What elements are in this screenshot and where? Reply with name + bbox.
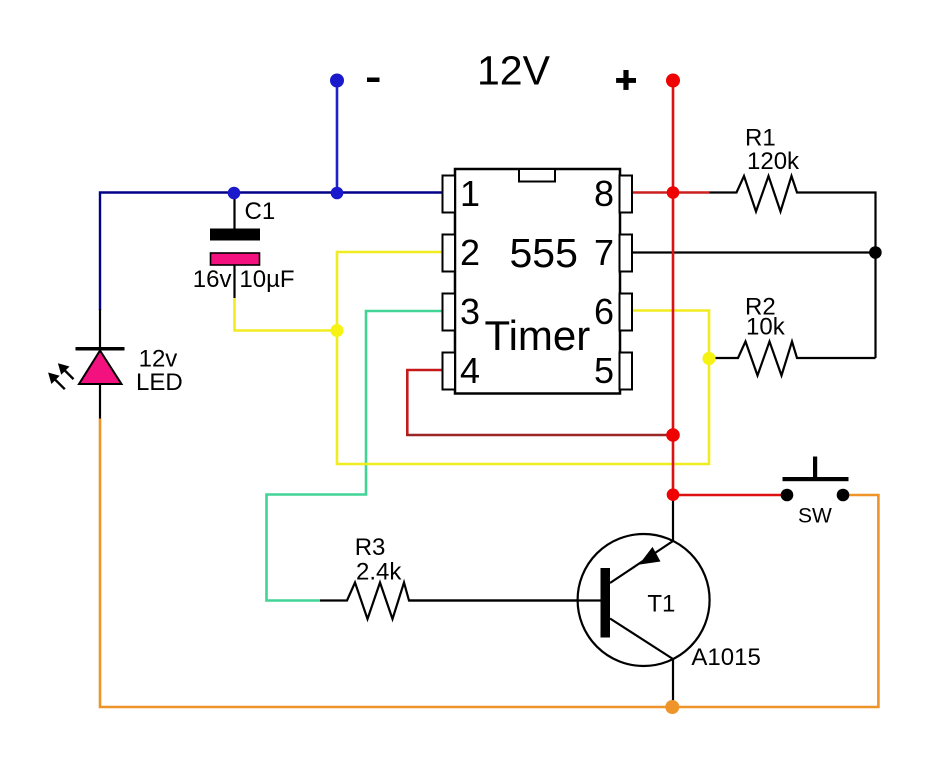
node orange junction bottom: [665, 700, 679, 714]
LED light arrow upper: [58, 363, 74, 379]
capacitor C1 top lead: [233, 194, 235, 229]
IC pin 3 box: [443, 294, 456, 331]
svg-text:LED: LED: [136, 369, 183, 396]
minus terminal sign: [367, 78, 380, 83]
svg-text:3: 3: [460, 291, 480, 332]
transistor T1 emitter arrowhead: [639, 547, 661, 565]
switch SW right contact dot: [837, 489, 850, 502]
svg-text:7: 7: [594, 232, 614, 273]
capacitor C1 bottom lead: [233, 265, 235, 298]
IC pin 2 box: [443, 235, 456, 272]
wire dark red pin4 reset lower: [406, 434, 673, 437]
wire yellow C1 leg: [235, 298, 339, 331]
plus terminal sign: [616, 70, 636, 90]
svg-text:4: 4: [460, 350, 480, 391]
svg-text:A1015: A1015: [691, 644, 760, 671]
svg-text:2.4k: 2.4k: [356, 559, 402, 586]
transistor T1 base bar: [601, 568, 611, 638]
svg-text:10µF: 10µF: [239, 266, 294, 293]
LED D1 triangle: [79, 351, 122, 385]
svg-text:8: 8: [594, 173, 614, 214]
wire black LED anode stem: [99, 309, 101, 348]
node blue junction C1: [228, 187, 241, 200]
wire blue minus terminal drop: [336, 84, 339, 193]
node red junction reset: [666, 428, 680, 442]
switch SW stem: [813, 457, 817, 478]
IC pin 7 box: [620, 235, 633, 272]
resistor R3 zigzag and leads: [320, 583, 601, 620]
LED D1 cathode bar: [76, 347, 125, 351]
LED light arrow lower: [48, 373, 65, 390]
wire yellow pin2 loop to pin6: [337, 252, 709, 464]
node red junction switch: [667, 488, 680, 501]
wire black switch to transistor top: [672, 495, 674, 541]
svg-text:10k: 10k: [746, 313, 786, 340]
resistor R1 zigzag and leads: [710, 176, 876, 358]
node blue junction drop: [331, 187, 344, 200]
wire navy minus rail to pin1: [100, 193, 443, 311]
transistor T1 emitter line: [610, 541, 673, 583]
node yellow junction C1 bottom: [331, 324, 344, 337]
wire red pin4 reset upper: [407, 370, 442, 435]
wire red pin8 lead: [632, 191, 710, 194]
svg-text:5: 5: [594, 350, 614, 391]
svg-text:120k: 120k: [747, 148, 800, 175]
wire black LED cathode stem: [99, 384, 101, 419]
svg-text:6: 6: [594, 291, 614, 332]
node red plus terminal: [666, 74, 680, 88]
IC pin 6 box: [620, 294, 633, 331]
IC pin 8 box: [620, 176, 633, 213]
transistor T1 collector line: [610, 619, 673, 660]
svg-text:R3: R3: [355, 534, 386, 561]
switch SW bar: [783, 477, 849, 481]
wire red to switch: [673, 494, 787, 497]
IC U1 555 body: [455, 169, 620, 394]
node blue minus terminal: [330, 74, 344, 88]
node yellow junction R2: [702, 352, 715, 365]
svg-text:SW: SW: [798, 505, 832, 528]
capacitor C1 top plate: [210, 229, 260, 241]
svg-text:2: 2: [460, 232, 480, 273]
switch SW left contact dot: [781, 489, 794, 502]
capacitor C1 bottom plate: [211, 253, 260, 265]
resistor R2 zigzag and leads: [716, 342, 876, 376]
svg-text:12V: 12V: [477, 48, 551, 94]
IC notch: [519, 169, 555, 182]
wire green pin3 to R3: [267, 311, 443, 601]
svg-text:16v: 16v: [193, 266, 232, 293]
wire black transistor collector down: [672, 659, 674, 707]
svg-text:555: 555: [510, 230, 578, 276]
node black junction R1 R2: [869, 246, 882, 259]
svg-text:Timer: Timer: [485, 312, 591, 359]
transistor T1 circle: [578, 534, 710, 666]
wire orange LED to bottom rail and switch: [100, 419, 878, 708]
wire black pin7 to R1-R2 junction: [632, 251, 876, 253]
svg-text:T1: T1: [647, 591, 675, 618]
IC pin 5 box: [620, 353, 633, 390]
svg-text:C1: C1: [245, 198, 276, 225]
IC pin 4 box: [443, 353, 456, 390]
wire red plus rail vertical: [672, 84, 675, 495]
svg-text:1: 1: [460, 173, 480, 214]
transistor T1 base wire inside: [409, 599, 601, 601]
IC pin 1 box: [443, 176, 456, 213]
node red junction pin8: [667, 186, 680, 199]
